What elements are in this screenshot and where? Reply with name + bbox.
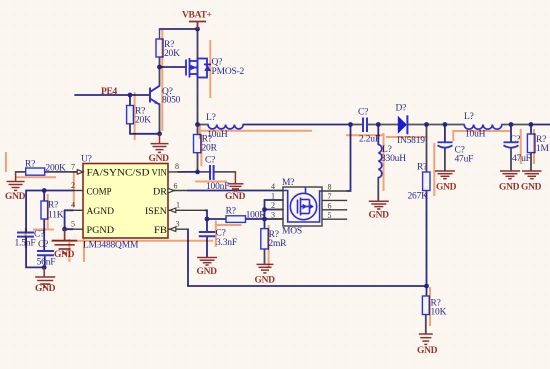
svg-text:R?: R? bbox=[25, 160, 35, 170]
ground GND (Q2 emitter) bbox=[151, 134, 169, 153]
wire to MOS pin1 bbox=[265, 199, 284, 201]
svg-text:20R: 20R bbox=[202, 143, 218, 153]
resistor R5 11K bbox=[41, 201, 64, 221]
svg-text:1: 1 bbox=[271, 192, 275, 201]
ground GND (R2) bbox=[7, 172, 25, 191]
node PE4 base junction bbox=[128, 93, 133, 98]
wire FB bottom run bbox=[188, 285, 427, 287]
transistor Q2 8050 bbox=[150, 86, 160, 105]
wire PE4 to Q2 base bbox=[75, 94, 150, 96]
highlight overlay (decorative) bbox=[6, 30, 534, 326]
wire R2 left lead bbox=[16, 171, 26, 173]
wire comp branch bottom join bbox=[26, 266, 44, 268]
node L2 junction bbox=[376, 122, 381, 127]
pin 3 input arrow bbox=[170, 227, 176, 232]
wire C8 bottom lead bbox=[206, 236, 208, 257]
wire R1 bottom / Q2 collector bbox=[159, 57, 161, 86]
wire PMOS drain-source vertical bbox=[197, 29, 199, 125]
svg-text:7: 7 bbox=[71, 162, 75, 171]
svg-text:COMP: COMP bbox=[87, 187, 112, 198]
wire R4 bottom to VIN node bbox=[197, 153, 199, 172]
wire FB vertical bbox=[187, 229, 189, 286]
wire R8 bottom long vertical bbox=[426, 191, 428, 287]
svg-text:GND: GND bbox=[417, 346, 438, 356]
node C7 junction bbox=[509, 122, 514, 127]
wire to MOS pin2 bbox=[265, 209, 284, 211]
resistor R4 20R bbox=[194, 135, 218, 154]
svg-text:GND: GND bbox=[255, 276, 276, 286]
svg-text:6: 6 bbox=[328, 201, 332, 210]
svg-text:8050: 8050 bbox=[162, 96, 181, 106]
wire MOS pins 1-2-3 vertical bbox=[264, 200, 266, 229]
svg-text:C?: C? bbox=[34, 230, 44, 240]
svg-text:LM3488QMM: LM3488QMM bbox=[83, 241, 139, 251]
svg-text:100R: 100R bbox=[246, 211, 267, 221]
transistor Q1 PMOS-2 bbox=[186, 58, 211, 78]
svg-text:267K: 267K bbox=[408, 192, 429, 202]
svg-text:20K: 20K bbox=[135, 116, 151, 126]
wire R5 to C2 bbox=[43, 219, 45, 251]
node ISEN junction bbox=[205, 217, 210, 222]
pin 6 DR bbox=[168, 190, 188, 192]
wire C8 top lead bbox=[206, 219, 208, 232]
wire R11 bottom stem bbox=[425, 315, 427, 334]
node R8 junction bbox=[424, 122, 429, 127]
resistor R1 20K bbox=[156, 29, 180, 59]
wire Q2 emitter pin bbox=[159, 104, 161, 134]
node MOS pin2 junction bbox=[262, 207, 267, 212]
wire rail C4 to D1 bbox=[367, 124, 398, 126]
capacitor C8 3.3nF bbox=[199, 232, 215, 236]
pin 2 COMP bbox=[73, 190, 83, 192]
wire rail D1 to L3 bbox=[408, 124, 465, 126]
wire comp branch left vertical bottom bbox=[25, 237, 27, 268]
svg-text:GND: GND bbox=[436, 183, 457, 193]
svg-text:8: 8 bbox=[328, 183, 332, 192]
inductor L2 330uH bbox=[378, 145, 382, 178]
svg-text:AGND: AGND bbox=[87, 206, 115, 217]
wire R8 top lead bbox=[426, 125, 428, 173]
pin 7 input arrow bbox=[77, 170, 83, 175]
svg-text:L?: L? bbox=[206, 113, 216, 123]
pin 6 output arrow bbox=[168, 188, 174, 193]
svg-text:200K: 200K bbox=[45, 164, 66, 174]
svg-text:GND: GND bbox=[369, 211, 390, 221]
svg-text:GND: GND bbox=[35, 284, 56, 294]
wire R5 top lead bbox=[43, 191, 45, 202]
svg-text:GND: GND bbox=[521, 183, 542, 193]
svg-text:1M: 1M bbox=[536, 144, 550, 154]
svg-text:GND: GND bbox=[54, 250, 75, 260]
svg-text:11K: 11K bbox=[48, 211, 64, 221]
wire COMP to chip bbox=[26, 190, 73, 192]
svg-text:C?: C? bbox=[205, 156, 215, 166]
wire main output rail left bbox=[198, 124, 209, 126]
wire C2 bottom lead bbox=[44, 255, 46, 267]
power VBAT+ bbox=[189, 22, 206, 30]
wire ISEN horizontal bbox=[205, 209, 207, 211]
ground GND (R11) bbox=[419, 334, 433, 344]
svg-text:FA/SYNC/SD: FA/SYNC/SD bbox=[87, 168, 150, 179]
svg-text:R?: R? bbox=[417, 162, 427, 172]
node comp bottom junction bbox=[42, 265, 47, 270]
wire node to R7 bbox=[207, 218, 226, 220]
wire L2 top lead bbox=[377, 125, 379, 145]
node VBAT junction bbox=[195, 27, 200, 32]
svg-text:100nF: 100nF bbox=[206, 182, 229, 192]
resistor R3 20K (base pulldown) bbox=[127, 106, 152, 126]
MOS pin 8 bbox=[322, 190, 347, 192]
svg-text:GND: GND bbox=[5, 192, 26, 202]
wire comp branch left vertical top bbox=[25, 191, 27, 233]
svg-text:L?: L? bbox=[464, 112, 474, 122]
wire C6 bottom stem bbox=[444, 148, 446, 171]
MOS pin 1 bbox=[273, 199, 283, 201]
svg-text:ISEN: ISEN bbox=[145, 206, 167, 217]
pin 4 AGND bbox=[73, 209, 83, 211]
svg-text:VBAT+: VBAT+ bbox=[182, 11, 212, 21]
wire AGND-PGND vertical bbox=[64, 210, 66, 229]
wire gate of Q1 bbox=[160, 66, 187, 68]
MOS pin 4 bbox=[273, 190, 283, 192]
svg-text:Q?: Q? bbox=[212, 58, 223, 68]
svg-text:3: 3 bbox=[176, 220, 180, 229]
svg-text:C?: C? bbox=[510, 135, 520, 145]
wire R7 to MOS node bbox=[246, 218, 265, 220]
svg-text:GND: GND bbox=[499, 183, 520, 193]
wire AGND to vertical bbox=[65, 209, 73, 211]
resistor R2 200K bbox=[25, 160, 66, 176]
MOSFET symbol inside M1 bbox=[283, 188, 322, 223]
svg-text:GND: GND bbox=[225, 192, 246, 202]
svg-text:R?: R? bbox=[48, 201, 58, 211]
svg-text:D?: D? bbox=[396, 104, 407, 114]
node VIN junction bbox=[195, 170, 200, 175]
ground GND (C8) bbox=[197, 257, 217, 265]
svg-text:MOS: MOS bbox=[282, 227, 302, 237]
svg-text:FB: FB bbox=[154, 225, 168, 236]
ground GND (comp network) bbox=[35, 267, 55, 287]
wire MOS pin8 riser bbox=[347, 125, 350, 192]
node SW junction bbox=[195, 122, 200, 127]
svg-text:GND: GND bbox=[149, 154, 170, 164]
node gate junction bbox=[157, 65, 162, 70]
MOS pin 5 bbox=[322, 218, 347, 220]
wire PGND to vertical bbox=[65, 228, 73, 230]
wire C6 top lead bbox=[444, 125, 446, 143]
resistor R9 1M bbox=[527, 134, 549, 154]
capacitor C7 47uF (polarized) bbox=[504, 142, 519, 147]
svg-text:4: 4 bbox=[271, 182, 275, 191]
resistor R11 10K bbox=[422, 296, 446, 318]
svg-text:3.3nF: 3.3nF bbox=[216, 238, 237, 248]
svg-text:PGND: PGND bbox=[87, 225, 115, 236]
svg-text:U?: U? bbox=[81, 155, 92, 165]
svg-text:C?: C? bbox=[38, 240, 48, 250]
pin 5 PGND bbox=[73, 228, 83, 230]
wire R3 top lead bbox=[129, 95, 131, 106]
svg-text:7: 7 bbox=[328, 192, 332, 201]
wire rail L1 to C4 bbox=[243, 124, 350, 126]
IC U1 LM3488QMM bbox=[71, 155, 206, 251]
node FB divider junction bbox=[424, 284, 429, 289]
wire C5 to ground stem bbox=[214, 171, 236, 173]
svg-text:20K: 20K bbox=[164, 49, 180, 59]
svg-text:C?: C? bbox=[358, 108, 368, 118]
wire L2 bottom lead bbox=[377, 178, 379, 202]
MOS pin 3 bbox=[273, 218, 283, 220]
svg-text:6: 6 bbox=[174, 182, 178, 191]
inductor L1 10uH bbox=[208, 125, 243, 129]
svg-text:PE4: PE4 bbox=[101, 87, 118, 97]
wire R4 top lead bbox=[197, 125, 199, 135]
capacitor C1 1.5nF bbox=[17, 233, 34, 237]
svg-text:DR: DR bbox=[153, 187, 167, 198]
wire R2 to pin7 bbox=[45, 171, 83, 173]
svg-text:R?: R? bbox=[226, 207, 236, 217]
MOS pin 6 bbox=[322, 209, 347, 211]
svg-text:56nF: 56nF bbox=[37, 258, 56, 268]
ground GND (AGND/PGND) bbox=[52, 229, 77, 253]
capacitor C6 47uF (polarized) bbox=[438, 142, 453, 147]
wire 2mR bottom lead bbox=[264, 249, 266, 264]
pin 8 VIN bbox=[168, 171, 187, 173]
ground GND (C6) bbox=[435, 171, 455, 179]
pin 1 ISEN bbox=[168, 209, 206, 211]
pin 3 FB bbox=[168, 228, 188, 230]
resistor R7 100R bbox=[226, 207, 267, 223]
MOS pin 2 bbox=[273, 209, 283, 211]
svg-text:5: 5 bbox=[71, 220, 75, 229]
svg-text:5: 5 bbox=[328, 211, 332, 220]
wire to MOS pin3 bbox=[265, 218, 284, 220]
wire rail L3 to right edge bbox=[502, 124, 531, 126]
resistor R6 2mR bbox=[261, 229, 287, 249]
svg-text:10K: 10K bbox=[431, 308, 447, 318]
wire R11 top lead bbox=[426, 286, 428, 296]
svg-text:PMOS-2: PMOS-2 bbox=[212, 67, 245, 77]
node pin8 riser junction bbox=[348, 122, 353, 127]
node MOS pin3 junction bbox=[262, 217, 267, 222]
svg-text:C?: C? bbox=[216, 229, 226, 239]
ground GND (R9) bbox=[522, 171, 542, 179]
ground GND (L2) bbox=[369, 201, 389, 209]
svg-text:8: 8 bbox=[175, 162, 179, 171]
capacitor C5 100nF bbox=[210, 165, 214, 180]
node emitter junction bbox=[157, 131, 162, 136]
svg-text:2mR: 2mR bbox=[268, 239, 287, 249]
node PGND junction bbox=[62, 227, 67, 232]
capacitor C4 2.2uF bbox=[363, 118, 367, 133]
svg-text:1: 1 bbox=[176, 201, 180, 210]
MOS pin 7 bbox=[322, 199, 347, 201]
svg-text:2: 2 bbox=[271, 201, 275, 210]
wire ISEN vertical bbox=[206, 210, 208, 219]
node COMP junction bbox=[42, 188, 47, 193]
svg-text:47uF: 47uF bbox=[455, 155, 474, 165]
wire DR to MOS pin4 bbox=[188, 190, 284, 192]
capacitor C2 56nF bbox=[37, 251, 54, 255]
svg-text:GND: GND bbox=[197, 267, 218, 277]
component M1 MOS module bbox=[271, 178, 347, 237]
pin 7 FA/SYNC/SD bbox=[73, 171, 83, 173]
node R9 junction bbox=[529, 122, 534, 127]
wire R9 bottom stem bbox=[530, 153, 532, 171]
ground GND (C5) bbox=[228, 172, 244, 191]
ground GND (C7) bbox=[500, 171, 520, 179]
ground GND (R6) bbox=[257, 264, 274, 273]
svg-text:330uH: 330uH bbox=[381, 154, 406, 164]
inductor L3 10uH bbox=[464, 125, 502, 130]
wire C7 bottom stem bbox=[510, 148, 512, 171]
wire R3 bottom lead bbox=[129, 124, 131, 134]
wire VBAT+ rail to R1 top bbox=[160, 28, 198, 30]
wire VIN pin to C5 bbox=[178, 171, 198, 173]
svg-text:M?: M? bbox=[282, 178, 294, 188]
pin 1 input arrow bbox=[170, 208, 176, 213]
diode D1 IN5819 bbox=[398, 115, 408, 134]
resistor R8 267K bbox=[408, 162, 431, 201]
node C6 junction bbox=[443, 122, 448, 127]
wire R3 to emitter node bbox=[130, 133, 160, 135]
wire C7 top lead bbox=[510, 125, 512, 143]
svg-text:3: 3 bbox=[271, 211, 275, 220]
wire R9 top lead bbox=[530, 125, 532, 135]
svg-text:VIN: VIN bbox=[152, 168, 167, 179]
